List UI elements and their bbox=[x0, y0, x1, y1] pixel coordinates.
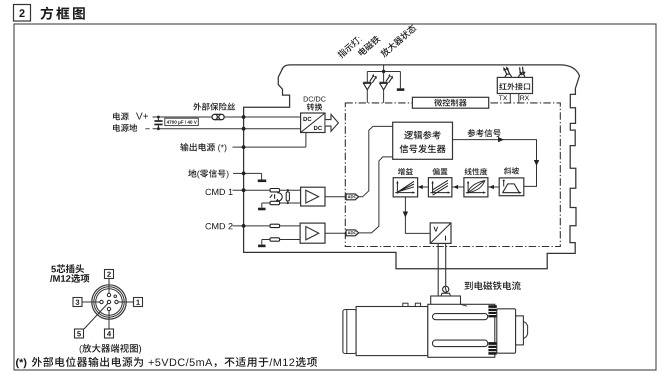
valve manual override tip bbox=[523, 321, 527, 338]
title 方框图 bbox=[41, 7, 85, 20]
label CMD 1 bbox=[206, 189, 233, 195]
ground symbol CMD2 bbox=[258, 245, 266, 248]
LED D2 emission arrows bbox=[386, 76, 392, 83]
IR TX photodiode symbol bbox=[505, 74, 511, 77]
pin 5 number box bbox=[75, 329, 84, 338]
resistor R5 bbox=[270, 238, 280, 241]
IR RX photodiode symbol bbox=[519, 74, 525, 77]
valve body slot top bbox=[433, 314, 488, 320]
label 放大器端视图 bbox=[80, 344, 142, 354]
arrow reference right bbox=[498, 137, 504, 142]
node output supply bbox=[242, 145, 246, 149]
wire ramp to linearity with arrow bbox=[488, 186, 499, 188]
valve tube top detail 1 bbox=[403, 303, 408, 306]
IR interface box 红外接口 bbox=[497, 77, 532, 93]
node signal zero bbox=[242, 172, 246, 176]
wire output supply bbox=[233, 146, 306, 148]
label /M12选项 bbox=[50, 274, 89, 283]
wire offset to gain with arrow bbox=[418, 186, 429, 188]
valve right solenoid body bbox=[497, 309, 516, 353]
valve solenoid tube bbox=[356, 307, 428, 356]
capacitor value label 4700 uF / 40 V bbox=[165, 118, 199, 125]
wire pin1 bbox=[118, 301, 133, 303]
M12 pin 5 center bbox=[107, 300, 110, 303]
label 放大器状态 rotated bbox=[379, 24, 417, 58]
wire LED rail stub to card edge bbox=[383, 65, 385, 72]
M12 connector ring bbox=[94, 287, 124, 317]
node R2 bottom bbox=[287, 202, 289, 204]
linearity block 线性度 bbox=[465, 168, 488, 175]
wire op-amp2 to ADC2 bbox=[325, 232, 346, 234]
label 5芯插头 bbox=[51, 264, 84, 273]
wire solenoid drive left bbox=[437, 243, 439, 296]
wire pin2 bbox=[108, 279, 110, 294]
label 外部保险丝 bbox=[193, 103, 235, 111]
microcontroller dashed region bbox=[345, 103, 560, 247]
wire CMD1 bottom bbox=[262, 202, 301, 204]
wire CMD2 bottom bbox=[262, 239, 300, 241]
M12 connector outer circle bbox=[92, 285, 126, 319]
M12 keyway mark bbox=[114, 295, 117, 298]
DC/DC output arrow bbox=[325, 114, 338, 131]
wire TX bbox=[509, 94, 511, 103]
wire LED ground branch bbox=[399, 72, 401, 89]
pin 2 number box bbox=[105, 270, 114, 279]
V/I converter U4 bbox=[430, 223, 451, 244]
label 电磁铁 rotated bbox=[357, 34, 381, 56]
M12 connector inner circle bbox=[96, 289, 123, 316]
wire reference signal bbox=[453, 140, 537, 187]
LED D2 amplifier status indicator bbox=[383, 72, 385, 83]
node LED rail bbox=[382, 70, 385, 73]
wire V+ supply bbox=[153, 116, 301, 118]
node capacitor top bbox=[157, 116, 160, 119]
gain block 增益 bbox=[398, 168, 413, 175]
potentiometer adjust ticks bbox=[270, 195, 273, 198]
label 地(零信号) bbox=[188, 169, 228, 178]
wire linearity to offset with arrow bbox=[452, 186, 464, 188]
ground symbol CMD1 bbox=[258, 208, 266, 211]
fuse F1 bbox=[212, 114, 217, 119]
ground symbol signal zero bbox=[258, 180, 267, 183]
wire ADC2 to logic generator bbox=[359, 157, 393, 233]
M12 pin 3 left bbox=[100, 300, 103, 303]
node capacitor bottom bbox=[157, 127, 160, 130]
ground symbol LED bbox=[397, 88, 405, 91]
label 电源地 bbox=[113, 124, 137, 132]
capacitor 4700uF plates bbox=[154, 120, 162, 122]
valve coil connector block bbox=[431, 296, 461, 306]
node V+ on card edge bbox=[242, 115, 246, 119]
pin 4 number box bbox=[105, 329, 114, 338]
valve body bbox=[428, 304, 495, 357]
ramp block 斜坡 bbox=[504, 167, 519, 174]
wire op-amp1 to ADC1 bbox=[325, 196, 346, 198]
label RX bbox=[520, 96, 529, 101]
DC/DC converter U1 bbox=[301, 113, 325, 133]
footnote bbox=[16, 358, 26, 368]
arrow gain down bbox=[403, 212, 408, 218]
op-amp U2 bbox=[301, 187, 325, 206]
valve tube top detail 2 bbox=[415, 303, 420, 306]
valve clamp block top bbox=[488, 305, 496, 317]
wire power ground bbox=[153, 128, 301, 130]
LED D1 emission arrows bbox=[370, 76, 376, 83]
DC/DC converter label bbox=[304, 96, 326, 101]
valve body top bevel bbox=[461, 304, 468, 306]
wire pin5 diagonal bbox=[84, 304, 108, 330]
valve right solenoid step bbox=[516, 316, 524, 345]
resistor R4 bbox=[270, 224, 280, 227]
wire pin4 bbox=[108, 311, 110, 329]
resistor R3 bbox=[270, 201, 280, 204]
arrow reference down bbox=[534, 160, 539, 166]
label 到电磁铁电流 bbox=[465, 281, 521, 290]
M12 pin 4 bottom bbox=[107, 307, 110, 310]
node CMD1 bbox=[242, 188, 246, 192]
logic reference generator box 逻辑参考信号发生器 bbox=[393, 122, 453, 159]
label 指示灯: rotated bbox=[336, 35, 362, 59]
label CMD 2 bbox=[206, 223, 233, 229]
wire CMD1 top bbox=[233, 189, 301, 191]
potentiometer adjust arc bbox=[277, 193, 283, 201]
wire CMD2 top bbox=[233, 225, 301, 227]
wire solenoid drive right bbox=[445, 243, 447, 286]
amplifier card outline bbox=[244, 65, 580, 269]
ADC converter 1 bbox=[346, 194, 359, 200]
node CMD2 bbox=[242, 224, 246, 228]
valve solenoid tube left cap bbox=[343, 310, 356, 354]
wire ADC1 to logic generator bbox=[359, 126, 393, 196]
wire LED rail bbox=[367, 71, 400, 73]
label 电源 V+ bbox=[113, 112, 129, 120]
microcontroller box 微控制器 bbox=[412, 97, 488, 108]
M12 pin 2 top bbox=[107, 293, 110, 296]
wire pin3 bbox=[82, 301, 100, 303]
valve body slot bottom bbox=[433, 340, 488, 347]
op-amp U3 bbox=[300, 223, 325, 243]
label 输出电源 (*) bbox=[180, 143, 226, 152]
label TX bbox=[499, 96, 507, 101]
valve connector screw terminal bbox=[443, 286, 449, 292]
title index box bbox=[14, 5, 31, 22]
node R2 top bbox=[287, 189, 289, 191]
node ground on card edge bbox=[242, 127, 246, 131]
LED D1 solenoid indicator bbox=[366, 72, 368, 83]
wire RX bbox=[518, 94, 520, 103]
wire signal zero ground bbox=[233, 172, 262, 174]
offset block 偏置 bbox=[433, 168, 448, 175]
pin 3 number box bbox=[73, 298, 82, 307]
valve clamp block bottom bbox=[488, 342, 496, 355]
M12 pin 1 right bbox=[115, 300, 118, 303]
resistor R1 bbox=[270, 189, 280, 192]
pin 1 number box bbox=[134, 298, 143, 307]
resistor R2 vertical bbox=[287, 190, 289, 192]
wire gain to V/I converter bbox=[405, 197, 430, 234]
ADC converter 2 bbox=[346, 230, 359, 236]
label 参考信号 bbox=[468, 129, 501, 137]
capacitor 4700uF plate stubs bbox=[157, 117, 159, 121]
